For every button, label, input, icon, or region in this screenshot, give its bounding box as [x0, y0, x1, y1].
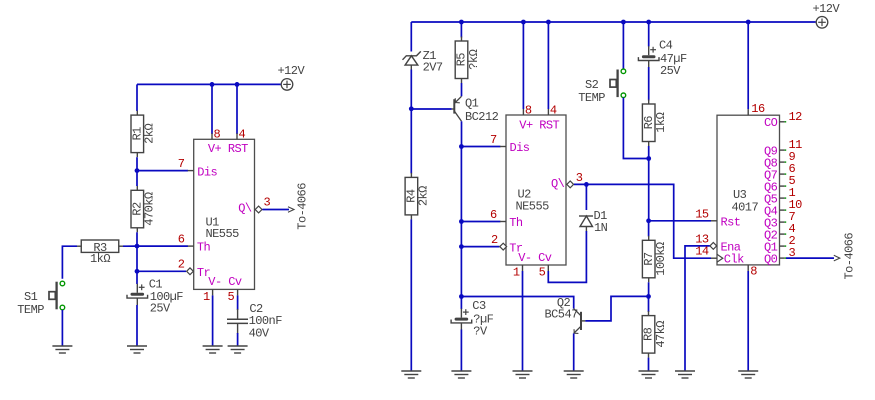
svg-text:7: 7 [178, 157, 185, 171]
junction node F (Th) [459, 219, 464, 224]
U1 pin numbers [178, 128, 271, 304]
svg-text:5: 5 [227, 290, 234, 304]
IC U3 4017 box [717, 115, 780, 265]
svg-text:1N: 1N [594, 221, 608, 235]
junction rail U2 pin4 [546, 20, 551, 25]
svg-text:?kΩ: ?kΩ [467, 49, 481, 69]
svg-text:2: 2 [178, 258, 185, 272]
svg-text:Dis: Dis [197, 165, 217, 179]
U3 pin16 stub [747, 109, 749, 115]
svg-text:25V: 25V [150, 302, 171, 316]
wire D1 to U2 Cv pin5 [548, 231, 586, 282]
svg-text:2kΩ: 2kΩ [143, 124, 157, 144]
svg-text:TEMP: TEMP [17, 303, 44, 317]
svg-text:C3: C3 [472, 299, 486, 313]
U3 Rst stub [711, 220, 717, 222]
arrow to 4066 left [288, 207, 294, 213]
svg-text:S2: S2 [585, 78, 599, 92]
svg-text:To-4066: To-4066 [296, 183, 310, 230]
svg-text:?V: ?V [473, 325, 488, 339]
transistor Q2 BC547 NPN [545, 296, 586, 333]
left circuit [17, 64, 309, 353]
resistor R8 [642, 311, 668, 358]
wire node K to node L [648, 159, 650, 221]
wire S1 to ground [61, 310, 63, 346]
wire node C to Tr pin2 [137, 270, 186, 272]
wire R6 to node K [648, 146, 650, 159]
wire +12V rail right [411, 21, 815, 23]
resistor R3 [77, 240, 123, 266]
wire R7 to node M [648, 282, 650, 296]
svg-text:1: 1 [513, 266, 520, 280]
ground U3 pin8 [738, 371, 758, 378]
svg-text:V- Cv: V- Cv [208, 275, 242, 289]
wire R2 to node B [136, 232, 138, 246]
svg-text:C4: C4 [659, 39, 673, 53]
wire Q2 emitter to ground [573, 333, 575, 371]
svg-text:4017: 4017 [732, 201, 759, 215]
wire Ena to ground [685, 246, 710, 371]
svg-text:V+ RST: V+ RST [519, 118, 559, 132]
svg-text:8: 8 [525, 103, 532, 117]
U3 output pin names [764, 116, 778, 266]
ground Ena [675, 371, 695, 378]
wire Q1 collector to Dis node [461, 121, 463, 146]
junction rail U3 pin16 [746, 20, 751, 25]
wire rail to R1 [136, 84, 138, 111]
svg-text:470kΩ: 470kΩ [143, 192, 157, 226]
ground C1 [127, 346, 147, 353]
svg-text:1kΩ: 1kΩ [90, 252, 110, 266]
U2 pin2 Tr inverting bubble [500, 243, 507, 250]
wire node B down to node C [136, 246, 138, 271]
U3 output pin stubs [780, 122, 787, 258]
ground R8 [639, 371, 659, 378]
junction node C (Tr/C1) [135, 269, 140, 274]
power +12V supply left [278, 64, 306, 90]
ground Q2 emitter [564, 371, 584, 378]
svg-text:CO: CO [764, 116, 778, 130]
ground R4 [401, 371, 421, 378]
capacitor C3 electrolytic [451, 299, 494, 339]
wire pin5 U1 to C2 [237, 295, 239, 310]
wire node M to R8 [648, 296, 650, 312]
svg-text:40V: 40V [249, 326, 270, 340]
wire C3 to ground [460, 330, 462, 372]
U3 Clk stub [711, 257, 717, 259]
ground U2 pin1 [513, 371, 533, 378]
wire node G down to C3 node [460, 247, 462, 297]
wire node A to Dis pin7 [137, 170, 188, 172]
junction node E (Q1 col/Dis) [459, 144, 464, 149]
junction rail S2 [621, 20, 626, 25]
capacitor C2 100nF [227, 302, 282, 340]
wire Q0 output to arrow [786, 257, 834, 259]
svg-text:Dis: Dis [510, 141, 530, 155]
U3 pin8 stub [747, 265, 749, 271]
wire node H to Q2 collector [461, 297, 573, 309]
svg-text:12: 12 [789, 110, 803, 124]
svg-text:5: 5 [539, 266, 546, 280]
svg-text:3: 3 [264, 195, 271, 209]
svg-text:NE555: NE555 [516, 200, 550, 214]
junction node B (R2/R3/Th) [135, 244, 140, 249]
wire Q2 base to node M [585, 296, 648, 321]
wire node D to Q1 base [411, 108, 451, 110]
svg-text:BC547: BC547 [545, 307, 579, 321]
svg-text:3: 3 [576, 171, 583, 185]
diode D1 1N [579, 209, 608, 235]
resistor R5 [455, 37, 481, 84]
svg-text:100kΩ: 100kΩ [654, 242, 668, 276]
U3 output pin numbers [789, 110, 803, 260]
junction node H (C3/Q2 col) [459, 294, 464, 299]
U1 pin names [197, 142, 252, 289]
svg-text:15: 15 [695, 207, 709, 221]
U2 pin3 Q output bubble [567, 181, 574, 188]
svg-text:+12V: +12V [813, 2, 841, 16]
U1 pin2 Tr inverting bubble [187, 268, 194, 275]
wire U2 pin8 to rail [522, 22, 524, 109]
junction node M (R7/R8/Q2 base) [646, 294, 651, 299]
resistor R7 [642, 236, 668, 282]
svg-text:Th: Th [509, 216, 523, 230]
junction node L (Rst/R7) [646, 218, 651, 223]
wire node G to U2 Tr pin2 [461, 246, 499, 248]
transistor Q1 BC212 PNP [452, 96, 499, 124]
svg-text:4: 4 [550, 103, 557, 117]
U3 clock triangle pin14 [717, 254, 723, 262]
junction rail pin4 [235, 82, 240, 87]
U2 pin names [509, 118, 564, 265]
wire node J down to D1 [585, 184, 587, 210]
zener diode Z1 2V7 [403, 49, 443, 74]
wire C2 to ground [237, 333, 239, 346]
wire node B to Th pin6 [137, 245, 188, 247]
wire node F to U2 Th pin6 [461, 221, 500, 223]
svg-text:1: 1 [203, 290, 210, 304]
wire node L to U3 Rst pin15 [649, 220, 711, 222]
wire R3 left to S1 [62, 246, 77, 279]
wire S2 to node K [623, 98, 648, 159]
svg-text:2: 2 [491, 233, 498, 247]
op IC U1 NE555 box [194, 139, 255, 289]
wire Q output to clock feed [574, 184, 711, 258]
svg-text:7: 7 [490, 133, 497, 147]
junction rail C4 [646, 20, 651, 25]
svg-text:Q1: Q1 [465, 96, 479, 110]
resistor R2 [131, 186, 157, 233]
arrow to 4066 right [834, 255, 840, 261]
wire Q1 output to arrow [262, 209, 289, 211]
ground S1 [52, 346, 72, 353]
wire C4 to R6 [648, 67, 650, 101]
wire pin8 U1 to rail [211, 84, 213, 134]
wire node D to R4 [410, 109, 412, 174]
wire U2 pin4 to rail [547, 22, 549, 109]
wire C1 to ground [136, 305, 138, 346]
junction node D (Z1/R4/Q1 base) [409, 106, 414, 111]
svg-text:1kΩ: 1kΩ [654, 112, 668, 132]
wire U3 pin8 to ground [747, 271, 749, 371]
svg-text:8: 8 [750, 265, 757, 279]
svg-text:4: 4 [239, 128, 246, 142]
junction rail pin8 [210, 82, 215, 87]
U2 pin numbers [490, 103, 583, 279]
wire node L to R7 [648, 221, 650, 237]
svg-text:TEMP: TEMP [578, 91, 605, 105]
junction rail U2 pin8 [521, 20, 526, 25]
U2 pin stubs [500, 109, 548, 271]
resistor R1 [131, 111, 157, 158]
svg-text:+12V: +12V [278, 64, 306, 78]
ground U1 pin1 [203, 346, 223, 353]
wire node A to R2 [136, 171, 138, 186]
svg-text:Clk: Clk [724, 253, 744, 267]
svg-text:S1: S1 [24, 290, 38, 304]
resistor R4 [405, 173, 431, 220]
resistor R6 [642, 100, 668, 147]
junction node J (Q/D1) [584, 182, 589, 187]
svg-text:V- Cv: V- Cv [518, 251, 552, 265]
svg-text:Q\: Q\ [238, 202, 252, 216]
wire pin1 U1 to ground [212, 295, 214, 346]
right circuit [401, 2, 856, 378]
svg-text:47kΩ: 47kΩ [654, 321, 668, 348]
svg-text:Th: Th [197, 241, 211, 255]
wire node E to U2 Dis pin7 [461, 146, 500, 148]
wire node C down to C1 [136, 271, 138, 284]
junction node K (S2/R6) [646, 156, 651, 161]
IC U2 NE555 box [506, 115, 566, 265]
wire U3 pin16 to rail [747, 22, 749, 109]
wire node E down to Th node [460, 147, 462, 222]
wire U2 pin1 to ground [522, 271, 524, 371]
capacitor C4 47uF electrolytic [638, 39, 687, 78]
wire +12V rail left [137, 83, 281, 85]
svg-text:V+ RST: V+ RST [208, 142, 248, 156]
wire R4 to ground [410, 219, 412, 371]
U1 pin3 Q output bubble [255, 206, 262, 213]
ground C2 [228, 346, 248, 353]
wire R1 to node A [136, 157, 138, 170]
capacitor C1 100uF electrolytic [127, 278, 183, 316]
svg-text:25V: 25V [660, 64, 681, 78]
wire pin4 U1 to rail [236, 84, 238, 134]
wire Z1 to node D [410, 70, 412, 109]
junction node A (R1/R2/Dis) [135, 168, 140, 173]
junction node G (Tr) [459, 244, 464, 249]
svg-text:Q\: Q\ [551, 177, 565, 191]
ground C3 [451, 371, 471, 378]
svg-text:14: 14 [695, 245, 709, 259]
wire rail to Z1 [410, 22, 412, 52]
svg-text:2V7: 2V7 [423, 60, 443, 74]
pushbutton S1 TEMP [17, 281, 64, 317]
wire R5 to Q1 emitter [461, 83, 463, 96]
wire rail to R5 [460, 22, 462, 38]
wire node F down to Tr node [460, 222, 462, 247]
svg-text:NE555: NE555 [206, 227, 240, 241]
svg-text:To-4066: To-4066 [843, 233, 857, 280]
wire R3 to node B [123, 245, 137, 247]
wire R8 to ground [648, 358, 650, 371]
junction rail R5 [459, 20, 464, 25]
U1 pin stubs [188, 133, 238, 295]
svg-text:2kΩ: 2kΩ [417, 186, 431, 206]
svg-text:Q0: Q0 [764, 252, 778, 266]
svg-text:6: 6 [178, 232, 185, 246]
svg-text:BC212: BC212 [465, 110, 499, 124]
svg-text:6: 6 [490, 208, 497, 222]
svg-text:16: 16 [751, 102, 765, 116]
svg-text:Rst: Rst [721, 216, 741, 230]
pushbutton S2 TEMP [578, 69, 625, 105]
wire rail to S2 [622, 22, 624, 69]
wire rail to C4 [648, 22, 650, 47]
U3 pin13 Ena bubble [710, 243, 717, 250]
svg-text:8: 8 [214, 128, 221, 142]
wire node H down to C3 [460, 297, 462, 310]
power +12V supply right [813, 2, 841, 28]
